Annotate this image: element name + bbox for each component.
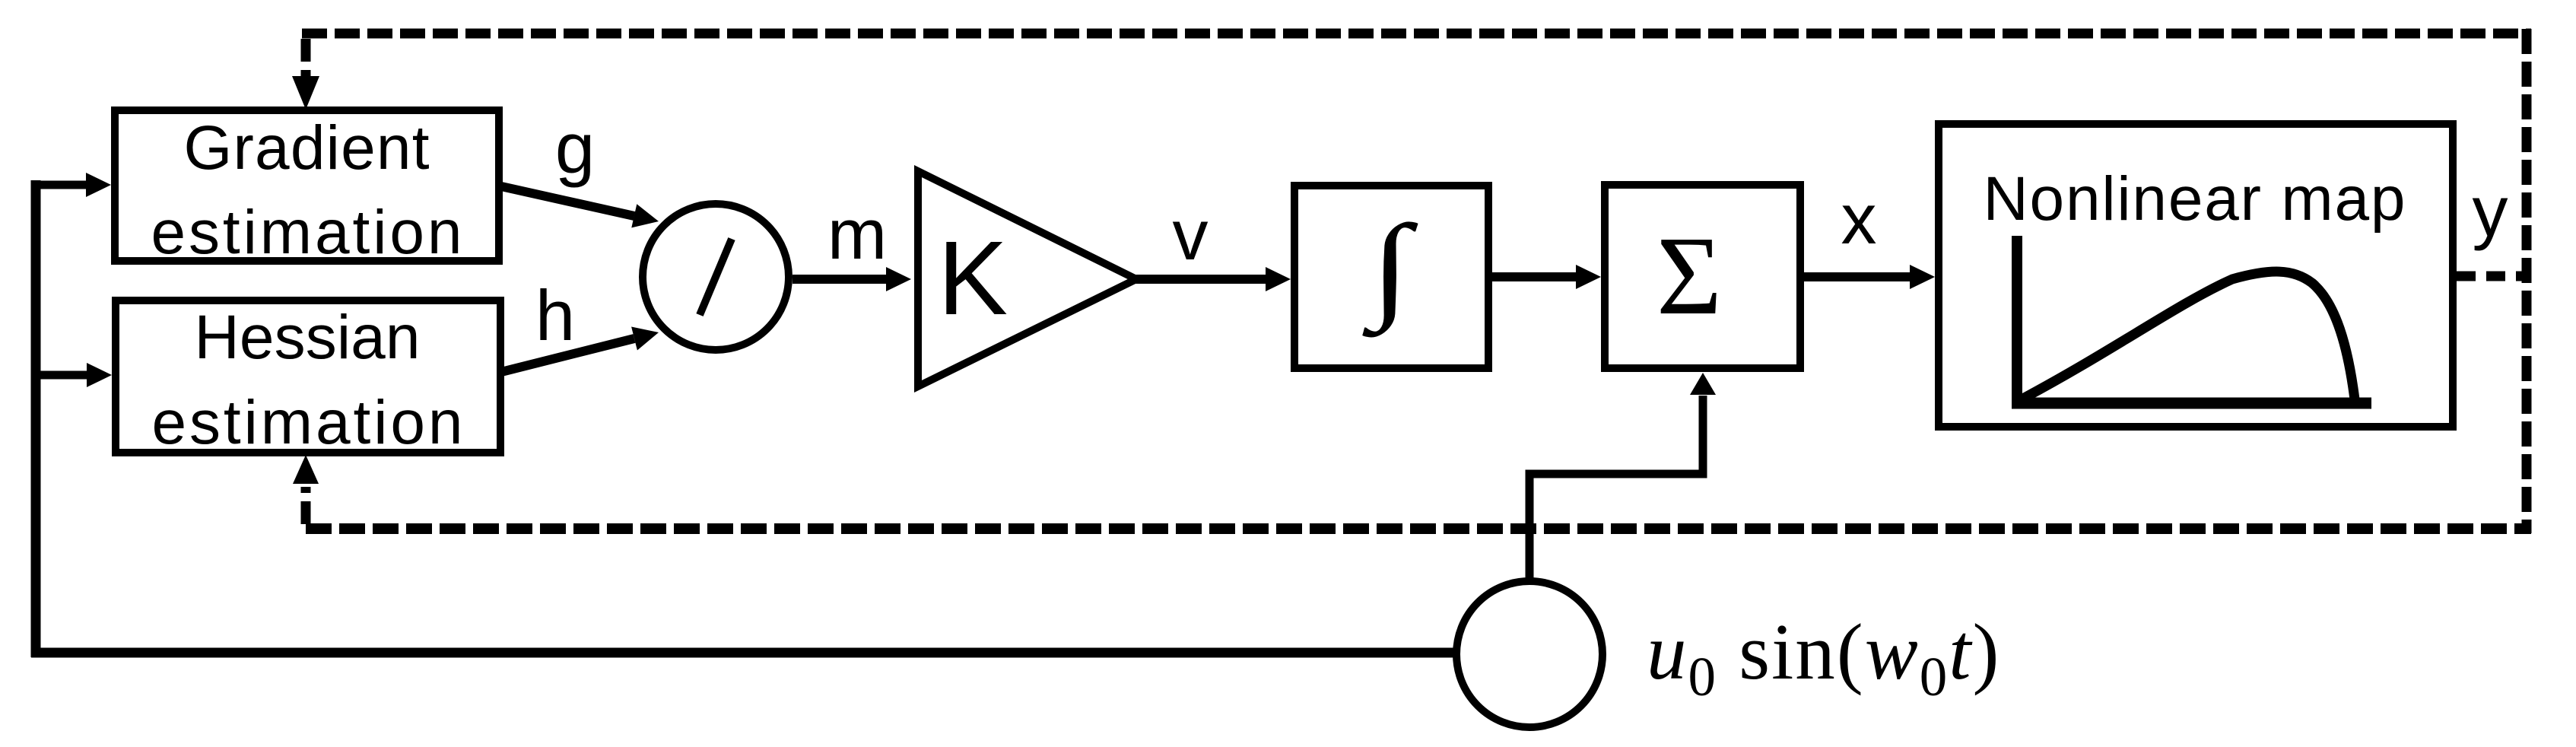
wire input arrow to Hessian estimation (31, 363, 112, 387)
wire g with arrowhead into divider (501, 186, 659, 227)
wire x from sum to nonlinear map (1804, 265, 1935, 289)
dashed feedback loop bottom line (306, 523, 2531, 534)
svg-text:Gradient: Gradient (184, 113, 430, 183)
nonlinear map axes (2012, 236, 2371, 403)
integrator block (1294, 186, 1488, 368)
dashed output line y from nonlinear map to feedback loop (2457, 272, 2527, 281)
wire h with arrowhead into divider (501, 327, 659, 373)
wire v from gain to integrator (1133, 267, 1291, 291)
svg-text:estimation: estimation (151, 198, 462, 267)
sum block sigma (1605, 185, 1800, 368)
perturbation source circle (1456, 581, 1602, 727)
svg-text:Nonlinear map: Nonlinear map (1984, 164, 2406, 234)
svg-text:Σ: Σ (1656, 214, 1722, 339)
svg-text:h: h (535, 275, 575, 355)
svg-text:estimation: estimation (152, 388, 463, 457)
block Hessian estimation (116, 300, 500, 457)
dashed feedback arrow into Hessian estimation block (293, 455, 319, 524)
block Gradient estimation (115, 110, 499, 267)
wire m from divider to gain (792, 267, 911, 291)
dashed feedback loop top line (302, 29, 2531, 39)
wire input arrow to Gradient estimation (31, 173, 111, 197)
gain K triangle (918, 171, 1136, 386)
wire perturbation to sum with arrowhead (1529, 373, 1716, 578)
nonlinear map block (1939, 124, 2453, 427)
svg-text:y: y (2473, 171, 2508, 251)
svg-text:x: x (1841, 179, 1877, 259)
wire left input vertical trunk (31, 180, 41, 657)
divider junction circle (/) (643, 204, 789, 350)
svg-text:Hessian: Hessian (195, 303, 421, 372)
nonlinear map curve (2019, 272, 2355, 401)
dashed feedback loop right line (2522, 29, 2532, 533)
svg-text:m: m (827, 194, 887, 274)
svg-text:g: g (555, 108, 595, 188)
wire integrator to sum (1492, 265, 1601, 289)
svg-text:∫: ∫ (1361, 201, 1418, 338)
svg-text:K: K (938, 220, 1008, 337)
dashed feedback arrow into Gradient estimation block (292, 39, 319, 110)
wire bottom feedback horizontal from perturbation node (31, 648, 1454, 658)
svg-text:v: v (1173, 195, 1209, 275)
